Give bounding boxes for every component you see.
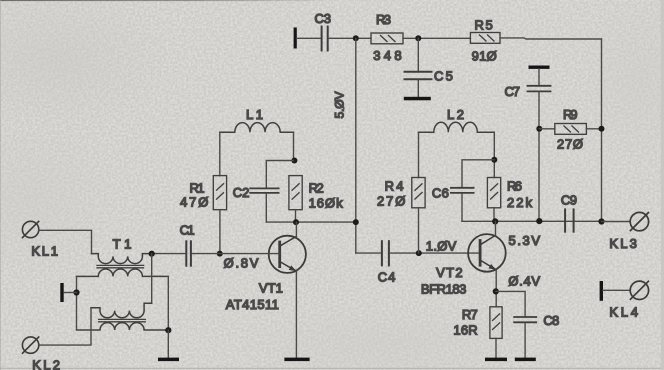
svg-text:16Øk: 16Øk [309,196,344,211]
terminal KL2 [22,337,38,353]
node R9/right rail [599,126,605,132]
transistor VT1 [269,236,306,273]
emitter node [493,288,499,294]
node B (C5 tap) [415,35,421,41]
svg-text:R2: R2 [309,181,324,196]
capacitor C4 [382,241,389,265]
svg-text:22k: 22k [507,195,533,210]
svg-text:BFR183: BFR183 [421,282,467,297]
svg-text:C2: C2 [233,185,250,200]
svg-text:16R: 16R [453,323,477,338]
resistor R1 [213,176,226,210]
node C7 line / C9 line [536,218,542,224]
svg-text:5.ØV: 5.ØV [333,92,347,119]
terminal KL3 [630,212,648,230]
wire node to ground [167,330,169,357]
transformer T1 winding 2 (upper bottom) [77,269,169,276]
ground under T1 [158,358,179,362]
svg-text:Ø.4V: Ø.4V [508,274,540,289]
node L2/R6/C6 [491,157,497,163]
wire R2 bottom [295,210,297,222]
svg-text:R6: R6 [507,179,522,194]
capacitor C8 [514,317,536,322]
transformer T1 winding 4 (lower bottom) [77,323,169,330]
svg-text:91Ø: 91Ø [472,49,497,64]
svg-text:R5: R5 [475,18,493,33]
svg-text:348: 348 [373,48,401,63]
wire center tap to ground [65,292,77,294]
svg-text:27Ø: 27Ø [557,137,583,152]
wire L2 left leg [418,132,420,177]
ground left of KL4 [600,281,603,301]
capacitor C5 [417,38,419,71]
wire 5.0V rail corner to C4 [356,252,381,254]
ground under C5 [404,97,431,101]
capacitor C2 [250,188,278,193]
wire KL1 to T1 [39,230,92,253]
wire output node down to winding 3 [145,254,152,304]
resistor R9 [555,124,587,135]
inductor L1 [220,123,294,133]
wire C1 to VT1 base [192,253,280,255]
VT1 collector wire [295,222,297,236]
wire node to C6 riser [462,160,494,187]
wire R7 to ground [495,338,497,357]
T1 lower core lines [99,319,146,321]
VT2 collector wire [495,221,497,235]
resistor R4 [412,178,425,208]
wire winding2 right down to winding4 end [167,276,169,330]
transformer T1 winding 3 (lower top) [91,303,152,318]
wire L1 right leg [293,132,295,160]
5.0V rail vertical [355,38,357,253]
svg-text:C3: C3 [315,11,332,26]
ground under R7 [485,358,507,362]
wire L2 right leg [493,132,495,177]
svg-text:R3: R3 [376,12,391,27]
node A (5.0V rail top) [353,35,359,41]
svg-text:Ø.8V: Ø.8V [224,256,259,271]
VT1 emitter wire [295,271,297,357]
ground at T1 center tap [60,283,63,302]
T1 output node [149,251,155,257]
capacitor C7 [538,69,540,85]
svg-text:KL3: KL3 [609,236,637,251]
svg-text:VT1: VT1 [259,281,283,296]
svg-text:C8: C8 [543,313,559,328]
node R4/base line [416,250,422,256]
svg-text:C4: C4 [378,270,396,285]
T1 upper core lines [97,265,144,267]
svg-text:VT2: VT2 [436,265,463,280]
node right rail / KL3 [598,218,604,224]
center tap node [73,289,79,295]
wire L1 left leg [219,132,221,175]
node C7/R9 [536,126,542,132]
svg-text:R1: R1 [190,181,205,196]
node 5.0V rail / collector line [353,219,359,225]
svg-text:C6: C6 [432,186,449,201]
resistor R7 [490,307,502,339]
svg-text:C7: C7 [505,84,521,99]
wire R1 to base line [219,210,221,254]
resistor R2 [289,176,302,210]
capacitor C1 [186,241,191,265]
svg-text:R7: R7 [462,307,478,322]
svg-text:27Ø: 27Ø [377,194,405,209]
resistor R6 [487,178,500,208]
wire R5 to right rail corner [500,38,602,39]
terminal KL4 [630,281,648,299]
svg-text:47Ø: 47Ø [180,195,208,210]
ground under C8 [515,358,536,362]
wire KL2 to winding 3 [39,308,91,345]
svg-text:1.ØV: 1.ØV [426,239,457,254]
VT2 emitter wire [495,270,497,307]
ground left of C3 [294,28,297,49]
svg-text:5.3V: 5.3V [509,233,541,248]
node L1/R2/C2 [291,158,297,164]
ground above C7 [529,66,550,69]
transformer T1 winding 1 (upper top) [92,254,149,264]
ground under VT1 emitter [284,358,309,362]
inductor L2 [419,122,495,132]
terminal KL1 [22,221,38,237]
wire C3 to node A [329,37,371,39]
svg-text:KL2: KL2 [32,358,60,370]
capacitor C9 [565,209,574,231]
wire T1 output to C1 [152,253,186,255]
wire ground to KL4 [603,289,630,291]
svg-text:KL1: KL1 [31,244,58,259]
wire winding2 left to center tap [76,276,78,329]
wire to KL3 [602,221,631,223]
resistor R5 [470,33,500,44]
svg-text:R9: R9 [563,107,578,122]
wire emitter node to C8 [496,291,525,316]
capacitor C6 [451,188,474,193]
node R1/base line [217,251,223,257]
wire C4 to VT2 base [390,252,480,254]
winding4 right node [165,327,171,333]
capacitor C3 [322,27,328,51]
transistor VT2 [468,234,506,272]
node VT2 collector [492,218,498,224]
node R2/collector [293,219,299,225]
wire R6 bottom [493,208,495,222]
collector line stage2 [462,220,602,222]
svg-text:AT41511: AT41511 [226,297,279,312]
wire node to C2 riser [266,161,293,188]
wire node to R9 [539,128,555,130]
resistor R3 [371,33,403,44]
collector feed line [266,221,356,223]
wire ground to C3 [297,37,321,39]
wire R9 to right rail [586,128,601,130]
svg-text:C1: C1 [180,223,195,238]
wire R3 to R5 [403,37,470,39]
wire R4 to base line [418,208,420,253]
svg-text:C9: C9 [561,193,577,208]
right rail down [601,39,603,222]
svg-text:KL4: KL4 [609,304,638,319]
